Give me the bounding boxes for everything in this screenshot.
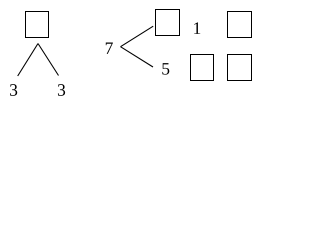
wire upper branch of right bond: [121, 26, 154, 47]
label 3 (right part of left bond): [58, 84, 65, 96]
answer box S1 (left number bond whole): [26, 12, 49, 38]
answer box SB (top right): [228, 12, 252, 38]
wire lower branch of right bond: [121, 47, 154, 67]
answer box SD (bottom right): [228, 55, 252, 81]
label 1 (beside SA): [194, 22, 200, 33]
label 3 (left part of left bond): [10, 84, 17, 96]
wire left branch of left bond: [18, 44, 38, 77]
wire right branch of left bond: [38, 44, 59, 76]
answer box SC (bottom middle): [191, 55, 214, 81]
label 7 (right bond whole): [106, 43, 113, 54]
label 5 (right bond lower part): [162, 63, 169, 75]
answer box SA (right bond upper part): [156, 10, 180, 36]
